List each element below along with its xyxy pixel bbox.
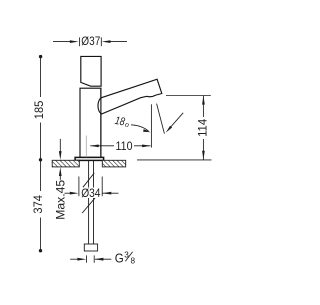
dim 185 top dot (39, 55, 42, 58)
dim Ø34 right arrowhead (103, 192, 112, 195)
countertop left section (hatched) (52, 160, 79, 167)
svg-text:Ø34: Ø34 (81, 186, 101, 200)
stream pointer arrowhead (166, 126, 172, 133)
supply pipe right wall (93, 161, 95, 244)
dim Max.45 lower arrowhead (59, 167, 62, 176)
dim Ø37 right tick (100, 37, 102, 46)
svg-text:8: 8 (131, 256, 136, 265)
dim 114 top arrowhead (202, 96, 205, 105)
dim G3/8 left tick (86, 255, 88, 262)
dim 114 bottom extension line (137, 159, 212, 161)
dim 110 left arrowhead (90, 145, 99, 148)
G3/8 fraction slash (125, 252, 132, 261)
pipe break slash upper (83, 173, 94, 187)
18 degree slanted stream line (157, 104, 165, 134)
dim Ø34 line right (103, 192, 119, 194)
dim 114 bottom arrowhead (202, 151, 205, 160)
dim 114 line upper (202, 96, 204, 117)
svg-text:G: G (115, 250, 124, 265)
svg-text:114: 114 (196, 118, 210, 136)
dim 374 line lower (40, 218, 42, 251)
dim Ø34 left arrowhead (70, 192, 79, 195)
lever handle (98, 79, 162, 114)
faucet axis reference line (85, 136, 87, 158)
dim 114 top extension line (166, 95, 211, 97)
dim Ø34 label (81, 188, 102, 199)
dim 374 bottom dot (39, 249, 42, 252)
dim Ø34 left extension line (78, 177, 80, 197)
supply pipe left wall (88, 161, 90, 244)
svg-text:374: 374 (31, 195, 45, 214)
dim G3/8 line right (95, 258, 111, 260)
faucet handle cap (81, 56, 101, 86)
18 degree leader arc (131, 125, 149, 131)
pipe break slash lower (82, 198, 95, 213)
dim Max.45 lower arrow shaft (59, 174, 61, 180)
dim 110 line left (90, 145, 114, 147)
faucet body (80, 88, 101, 157)
dim Ø37 left tick (79, 37, 81, 46)
dim 110 line right (134, 145, 151, 147)
dim 110 right arrowhead (142, 145, 151, 148)
dim G3/8 right tick (93, 255, 95, 262)
dim 185 bottom dot (39, 158, 42, 161)
18 degree leader arrowhead (143, 129, 151, 132)
dim Ø37 line right (108, 41, 127, 43)
outlet vertical reference line (150, 104, 152, 147)
G3/8 connector nut (84, 244, 97, 251)
svg-text:3: 3 (124, 250, 129, 259)
dim 374 line upper (40, 160, 42, 191)
dim Ø37 right arrowhead (102, 40, 111, 43)
dim G3/8 line left (70, 258, 78, 260)
dim G3/8 right arrowhead (95, 258, 104, 261)
svg-text:Ø37: Ø37 (81, 34, 100, 48)
svg-text:Max.45: Max.45 (55, 180, 67, 220)
18 degree label (114, 115, 131, 130)
svg-text:110: 110 (116, 139, 133, 153)
dim Ø37 left arrowhead (70, 40, 79, 43)
dim Ø37 line left (53, 41, 72, 43)
dim Ø34 right extension line (101, 177, 103, 197)
dim 185 line lower (40, 123, 42, 160)
faucet body right edge (100, 88, 102, 157)
stream pointer arrow shaft (168, 113, 183, 130)
svg-text:185: 185 (32, 100, 46, 119)
dim Ø34 line left (65, 192, 73, 194)
dim 185 line upper (40, 57, 42, 97)
countertop right section (hatched) (102, 160, 125, 167)
dim 114 line lower (202, 139, 204, 160)
dim G3/8 left arrowhead (77, 258, 86, 261)
base flange (75, 157, 104, 160)
dim Max.45 upper arrowhead (59, 151, 62, 160)
dim Max.45 upper arrow shaft (59, 139, 61, 152)
